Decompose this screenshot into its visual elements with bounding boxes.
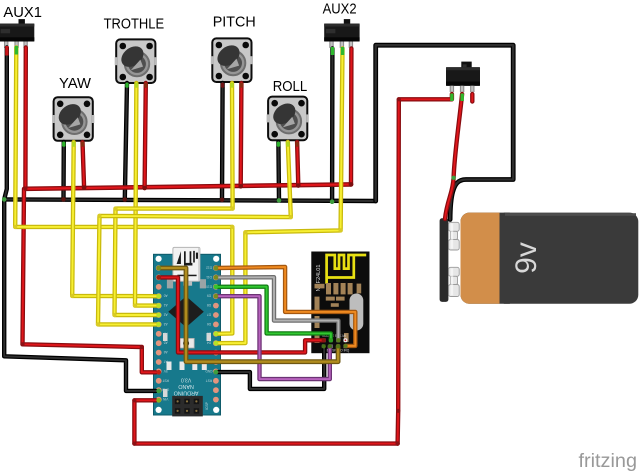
switch AUX1 xyxy=(0,19,34,48)
junction node TROTHLE red / bus xyxy=(142,186,147,191)
svg-text:D10: D10 xyxy=(206,284,212,288)
corner holes xyxy=(156,256,162,262)
tiny pin labels xyxy=(161,266,212,402)
tip segments TROTHLE pins xyxy=(125,83,128,88)
svg-text:V3.0: V3.0 xyxy=(181,377,192,383)
smd parts xyxy=(315,283,362,343)
svg-text:PITCH: PITCH xyxy=(213,14,256,31)
crystal xyxy=(350,294,364,331)
wire black AUX1 pin1 to GND bus xyxy=(4,48,7,200)
wire purple nano D9 to NRF CSN xyxy=(216,296,330,379)
svg-text:9v: 9v xyxy=(510,242,543,274)
wire yellow TROTHLE wiper to nano A1 xyxy=(135,83,159,306)
wire red 5V bus horizontal xyxy=(25,184,351,188)
junction node battery red bendpoint xyxy=(451,176,455,180)
tip green power switch pin1 xyxy=(450,94,453,102)
nano pin connection dots xyxy=(156,266,161,271)
svg-text:A4: A4 xyxy=(164,331,168,335)
svg-text:A3: A3 xyxy=(164,322,168,326)
svg-text:VIN: VIN xyxy=(162,397,168,401)
NRF24L01 silk text xyxy=(316,264,322,291)
wire red AUX1 pin3 down xyxy=(23,48,28,189)
ICSP header xyxy=(172,396,203,417)
unconnected IRQ pad xyxy=(343,338,347,342)
wire olive nano TX1 to NRF MISO xyxy=(159,268,338,362)
wire red YAW pin3 xyxy=(83,142,85,188)
wire black PITCH pin1 xyxy=(220,83,225,200)
power switch S1 xyxy=(446,62,480,92)
bendpoint dots yellow corners xyxy=(13,207,343,327)
antenna trace xyxy=(327,255,367,284)
junction node TROTHLE black / bus xyxy=(123,197,128,202)
wire red power switch pin2 to battery positive xyxy=(445,94,462,219)
NRF pin connection dots xyxy=(322,338,326,342)
wire black YAW pin1 xyxy=(61,142,66,199)
wire red ROLL pin3 xyxy=(297,142,298,186)
svg-text:YAW: YAW xyxy=(59,75,92,92)
svg-text:A5: A5 xyxy=(164,341,168,345)
svg-text:A7: A7 xyxy=(164,360,168,364)
wire grey nano D11 to NRF SCK xyxy=(216,277,339,340)
svg-text:TROTHLE: TROTHLE xyxy=(104,16,165,33)
wire black nano GND right to NRF GND xyxy=(216,346,324,389)
wire red TROTHLE pin3 xyxy=(145,83,146,188)
svg-text:D12: D12 xyxy=(206,266,212,270)
svg-text:fritzing: fritzing xyxy=(579,451,638,472)
svg-text:ARDUINO: ARDUINO xyxy=(174,390,199,396)
wire red PITCH pin3 xyxy=(238,83,243,186)
svg-text:RST: RST xyxy=(206,378,212,382)
svg-text:D11: D11 xyxy=(206,275,212,279)
LED row xyxy=(167,362,172,371)
svg-text:D5: D5 xyxy=(207,331,211,335)
battery 9V xyxy=(440,213,639,304)
svg-text:AUX1: AUX1 xyxy=(3,4,42,21)
tip green AUX2 black wire xyxy=(331,47,334,55)
USB icon marks xyxy=(177,251,198,266)
tip green power switch pin2 xyxy=(461,94,464,102)
potentiometer TROTHLE xyxy=(115,39,157,83)
ARDUINO NANO V3.0 text (rotated 180) xyxy=(174,377,199,396)
svg-text:A2: A2 xyxy=(164,313,168,317)
svg-text:ICSP: ICSP xyxy=(205,401,209,410)
wire black ROLL pin1 xyxy=(276,142,281,200)
junction node ROLL black / bus xyxy=(277,198,282,203)
junction node PITCH red / bus xyxy=(238,184,243,189)
wire red bus down to nano 5V xyxy=(23,189,156,372)
wire red power switch pin1 to bottom rail xyxy=(398,94,452,444)
pin pads left column xyxy=(156,265,162,402)
junction node GND bus left end xyxy=(2,197,7,202)
svg-text:A6: A6 xyxy=(164,350,168,354)
wire black GND bus horizontal xyxy=(4,199,376,201)
wire yellow AUX2 pin2 to nano D4 xyxy=(216,49,343,344)
svg-text:ROLL: ROLL xyxy=(273,78,308,95)
wire red AUX2 pin3 xyxy=(349,49,354,185)
potentiometer PITCH xyxy=(211,38,253,82)
wire yellow PITCH wiper to nano A2 xyxy=(115,83,233,315)
wire red VIN rail xyxy=(134,400,397,443)
wire yellow ROLL wiper to nano A3 xyxy=(98,142,291,324)
wire black AUX2 pin1 xyxy=(330,49,335,202)
tip segments PITCH pins xyxy=(221,83,224,88)
svg-text:D8: D8 xyxy=(207,303,211,307)
svg-text:AUX2: AUX2 xyxy=(323,1,357,18)
USB connector xyxy=(167,279,173,288)
Arduino Nano U1 xyxy=(154,247,221,416)
svg-text:RST: RST xyxy=(162,378,168,382)
wire black TROTHLE pin1 xyxy=(125,83,127,200)
wire black battery negative loop xyxy=(376,45,514,219)
svg-text:D7: D7 xyxy=(207,313,211,317)
svg-text:A1: A1 xyxy=(164,303,168,307)
small smd parts xyxy=(163,333,168,341)
wire yellow YAW wiper to nano A0 xyxy=(72,142,159,296)
MCU diamond xyxy=(168,296,204,327)
wire red stub power switch pin3 xyxy=(470,94,474,102)
svg-text:D4: D4 xyxy=(207,341,211,345)
svg-text:NANO: NANO xyxy=(178,383,194,389)
tip segments YAW pins xyxy=(62,142,65,147)
pin header pads xyxy=(322,338,347,348)
potentiometer ROLL xyxy=(267,97,309,141)
wire yellow AUX1 pin2 to nano D5 xyxy=(15,48,232,334)
junction node YAW red / bus xyxy=(82,185,87,190)
junction node YAW black / bus xyxy=(61,197,66,202)
pin pads right column xyxy=(213,265,219,402)
reset button xyxy=(178,338,194,348)
wire orange nano D12 to NRF MOSI xyxy=(216,267,355,346)
svg-text:GND: GND xyxy=(205,369,213,373)
bendpoint dots red corners xyxy=(20,97,401,446)
svg-text:A0: A0 xyxy=(164,294,168,298)
switch AUX2 xyxy=(324,19,359,48)
tip red on AUX1 black wire xyxy=(5,46,8,56)
wire black GND down to nano GND xyxy=(4,199,156,391)
svg-text:GND: GND xyxy=(161,388,169,392)
wire red nano RX0 to NRF VCC xyxy=(159,277,324,352)
junction node PITCH black / bus xyxy=(220,197,225,202)
tip green AUX2 yellow wire xyxy=(341,47,344,55)
tip segments ROLL pins xyxy=(277,142,280,147)
junction node AUX2 red / bus corner xyxy=(349,182,354,187)
svg-text:D9: D9 xyxy=(207,294,211,298)
junction node ROLL red / bus xyxy=(296,183,301,188)
junction node AUX2 black / bus xyxy=(330,199,335,204)
wire green nano D10 to NRF CE xyxy=(216,287,331,341)
svg-text:D6: D6 xyxy=(207,322,211,326)
potentiometer YAW xyxy=(52,97,94,141)
tip green on AUX1 yellow wire xyxy=(15,46,18,55)
NRF24L01 module U2 xyxy=(311,252,369,354)
